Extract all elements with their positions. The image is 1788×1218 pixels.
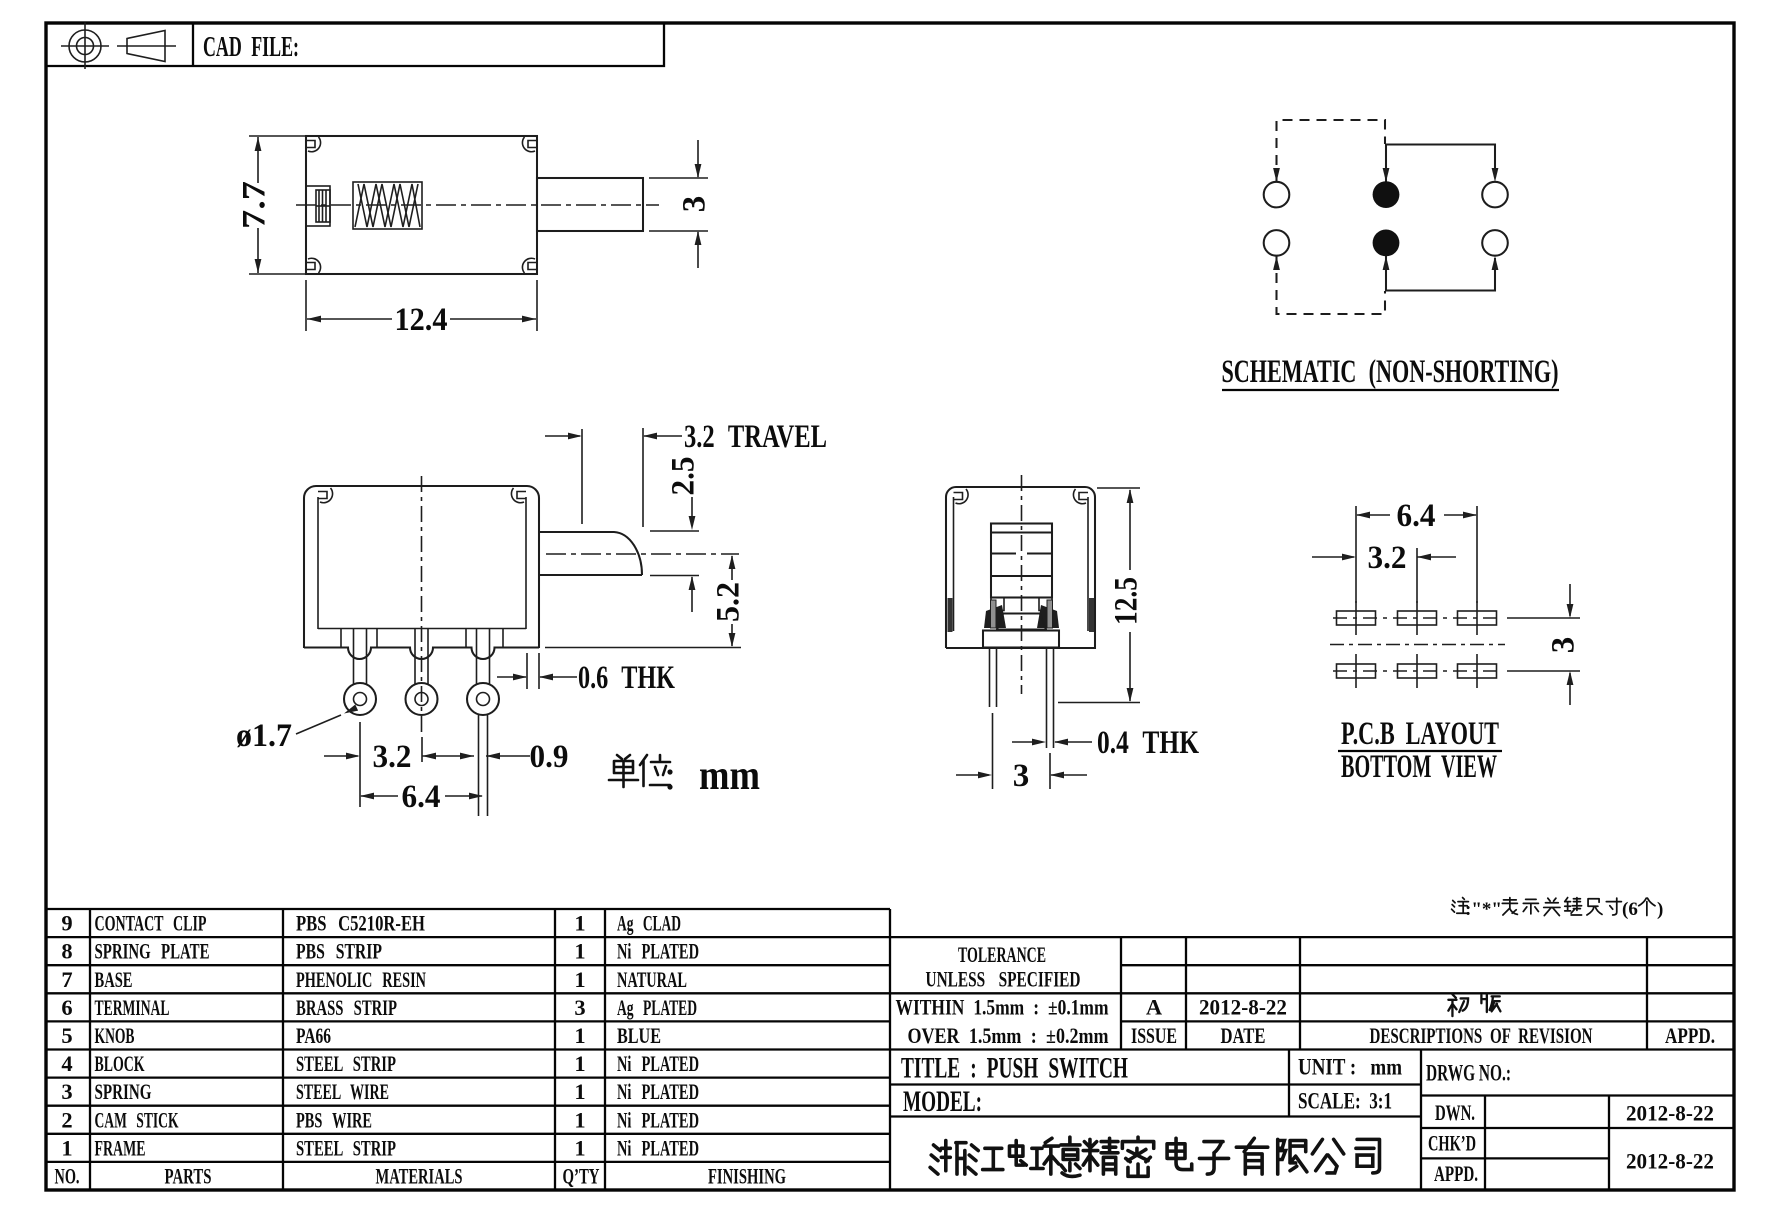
first-angle projection target symbol xyxy=(61,23,109,70)
label dia 1.7 xyxy=(236,705,358,754)
svg-text:3.2: 3.2 xyxy=(1368,540,1407,576)
svg-text:1: 1 xyxy=(574,1107,585,1132)
contact circle filled bottom-middle xyxy=(1373,230,1400,257)
svg-text:SPRING: SPRING xyxy=(95,1079,152,1104)
dim 3.2 TRAVEL xyxy=(545,419,827,527)
svg-text:FINISHING: FINISHING xyxy=(708,1164,786,1189)
svg-text:TERMINAL: TERMINAL xyxy=(95,995,170,1020)
svg-text:7: 7 xyxy=(61,967,72,992)
svg-text:PBS WIRE: PBS WIRE xyxy=(296,1107,372,1132)
plunger side xyxy=(539,532,642,575)
char cun xyxy=(1606,898,1621,915)
svg-text:Ni PLATED: Ni PLATED xyxy=(617,939,699,964)
body outline xyxy=(304,486,539,648)
svg-text:A: A xyxy=(1146,995,1163,1020)
svg-text:KNOB: KNOB xyxy=(95,1023,135,1048)
char 电 xyxy=(1167,1138,1192,1169)
svg-text:P.C.B LAYOUT: P.C.B LAYOUT xyxy=(1341,716,1499,752)
svg-text:2012-8-22: 2012-8-22 xyxy=(1626,1149,1714,1174)
dim 3.2 xyxy=(1312,540,1456,603)
company name (drawn strokes) 浙江虹穗精密电子有限公司 xyxy=(930,1137,1379,1176)
svg-text:ISSUE: ISSUE xyxy=(1131,1023,1177,1048)
dim 5.2 xyxy=(545,555,747,648)
char jian xyxy=(1565,898,1582,915)
terminal lug 1 xyxy=(344,683,376,715)
svg-text:0.9: 0.9 xyxy=(530,739,569,775)
svg-text:6.4: 6.4 xyxy=(402,779,441,815)
svg-text:SPRING PLATE: SPRING PLATE xyxy=(95,939,210,964)
svg-text:12.4: 12.4 xyxy=(395,302,448,338)
dim 0.9 xyxy=(486,739,569,775)
arrows into contacts xyxy=(1273,168,1280,182)
char 精 xyxy=(1083,1138,1118,1174)
contact U channel xyxy=(997,614,1046,630)
contact circle filled top-middle xyxy=(1373,181,1400,208)
svg-text:Q’TY: Q’TY xyxy=(563,1164,600,1189)
svg-text:7.7: 7.7 xyxy=(237,181,273,229)
pad top-middle xyxy=(1398,611,1437,625)
knob xyxy=(991,524,1052,598)
svg-text:2: 2 xyxy=(61,1107,72,1132)
svg-text:SCALE: 3:1: SCALE: 3:1 xyxy=(1298,1089,1392,1114)
svg-text:TOLERANCE: TOLERANCE xyxy=(958,942,1046,967)
dimension 12.4 xyxy=(306,280,537,338)
dim 3.2 (terminal pitch) xyxy=(324,722,474,807)
char 子 xyxy=(1199,1142,1228,1174)
svg-text:WITHIN 1.5mm : ±0.1mm: WITHIN 1.5mm : ±0.1mm xyxy=(896,995,1109,1020)
pad top-right xyxy=(1458,611,1497,625)
char guan xyxy=(1544,898,1560,915)
units note 单位: mm xyxy=(609,753,760,799)
terminal strips through clips xyxy=(991,600,997,628)
cam stick xyxy=(306,186,330,226)
svg-text:0.6 THK: 0.6 THK xyxy=(578,660,675,696)
svg-text:FRAME: FRAME xyxy=(95,1135,146,1160)
base shelf line xyxy=(318,628,526,630)
char 密 xyxy=(1122,1137,1153,1176)
pad top-left xyxy=(1337,611,1376,625)
char 江 xyxy=(968,1145,1003,1174)
contact circle open top-left xyxy=(1264,182,1290,208)
svg-text:0.4 THK: 0.4 THK xyxy=(1097,725,1199,761)
center line xyxy=(296,204,659,206)
base block xyxy=(983,631,1059,648)
dim 0.6 THK xyxy=(497,653,675,696)
svg-text:DRWG NO.:: DRWG NO.: xyxy=(1426,1061,1511,1086)
corner tab right xyxy=(511,488,526,503)
char 单 xyxy=(609,755,638,787)
contact clips dark xyxy=(984,605,1006,628)
dim 3 xyxy=(1507,584,1582,705)
dim 12.5 xyxy=(1058,488,1145,703)
svg-text:1: 1 xyxy=(574,1079,585,1104)
dashed frame xyxy=(1277,120,1386,182)
contact circle open bottom-left xyxy=(1264,230,1290,256)
char 限 xyxy=(1278,1139,1307,1174)
svg-text:1: 1 xyxy=(574,1051,585,1076)
svg-text:UNIT : mm: UNIT : mm xyxy=(1298,1055,1402,1080)
center line xyxy=(1021,475,1023,694)
plunger / knob shaft xyxy=(537,178,643,231)
char 浙 xyxy=(930,1140,966,1174)
svg-text:DATE: DATE xyxy=(1221,1023,1266,1048)
svg-text:PHENOLIC RESIN: PHENOLIC RESIN xyxy=(296,967,426,992)
svg-text:Ni PLATED: Ni PLATED xyxy=(617,1107,699,1132)
dim 3 (pin pitch) xyxy=(956,713,1087,794)
svg-text:9: 9 xyxy=(61,911,72,936)
svg-text:PARTS: PARTS xyxy=(165,1164,212,1189)
svg-text:NATURAL: NATURAL xyxy=(617,967,687,992)
contact circle open bottom-right xyxy=(1482,230,1508,256)
spring plate ears xyxy=(991,598,1052,611)
svg-text:BASE: BASE xyxy=(95,967,133,992)
tolerance block text xyxy=(896,942,1716,1048)
body outline xyxy=(946,487,1095,648)
svg-text:STEEL WIRE: STEEL WIRE xyxy=(296,1079,389,1104)
svg-text:MATERIALS: MATERIALS xyxy=(376,1164,463,1189)
svg-text:MODEL:: MODEL: xyxy=(903,1085,982,1118)
svg-text:1: 1 xyxy=(574,939,585,964)
pad bottom-middle xyxy=(1398,664,1437,678)
svg-text:Ni PLATED: Ni PLATED xyxy=(617,1135,699,1160)
svg-text:PBS STRIP: PBS STRIP xyxy=(296,939,382,964)
svg-text:): ) xyxy=(1657,899,1663,920)
divider xyxy=(192,23,194,66)
contact circle open top-right xyxy=(1482,182,1508,208)
svg-text:APPD.: APPD. xyxy=(1665,1023,1715,1048)
char shi xyxy=(1523,899,1538,914)
svg-text:BLOCK: BLOCK xyxy=(95,1051,145,1076)
corner tab top-right xyxy=(522,137,537,152)
shelf stubs xyxy=(340,629,342,648)
svg-text:TITLE : PUSH SWITCH: TITLE : PUSH SWITCH xyxy=(901,1052,1128,1085)
char chi xyxy=(1587,899,1602,915)
svg-text:3: 3 xyxy=(574,995,585,1020)
svg-text:3.2 TRAVEL: 3.2 TRAVEL xyxy=(684,419,827,455)
dimension 3 (plunger width) xyxy=(649,140,713,268)
wire of terminal 3 xyxy=(478,715,480,817)
svg-text:6.4: 6.4 xyxy=(1397,498,1436,534)
svg-text:ø1.7: ø1.7 xyxy=(236,718,292,754)
char 司 xyxy=(1356,1139,1380,1173)
char 公 xyxy=(1312,1139,1343,1173)
svg-text:CAM STICK: CAM STICK xyxy=(95,1107,179,1132)
parts list rows xyxy=(55,911,787,1189)
title / model xyxy=(901,1052,1511,1119)
char 位 xyxy=(640,755,670,786)
CAD FILE header box xyxy=(46,23,664,66)
svg-text:STEEL STRIP: STEEL STRIP xyxy=(296,1051,396,1076)
dim 0.4 THK xyxy=(1012,725,1199,761)
solid wiring xyxy=(1386,145,1495,183)
corner tab left xyxy=(318,488,333,503)
char 虹 xyxy=(1009,1140,1043,1168)
char ge xyxy=(1639,898,1655,915)
svg-text:6: 6 xyxy=(61,995,72,1020)
inner walls xyxy=(953,497,955,631)
pad bottom-left xyxy=(1337,664,1376,678)
top view body frame xyxy=(306,136,537,274)
corner tab bottom-left xyxy=(306,258,321,273)
dimension 7.7 xyxy=(237,136,308,274)
svg-text:SCHEMATIC (NON-SHORTING): SCHEMATIC (NON-SHORTING) xyxy=(1222,354,1559,390)
svg-text:PBS C5210R-EH: PBS C5210R-EH xyxy=(296,911,425,936)
svg-text:Ag PLATED: Ag PLATED xyxy=(617,995,697,1020)
dim 6.4 xyxy=(360,779,483,815)
char biao xyxy=(1502,898,1517,915)
svg-text:NO.: NO. xyxy=(55,1164,80,1189)
corner tab bottom-right xyxy=(522,258,537,273)
svg-text:CHK’D: CHK’D xyxy=(1428,1131,1476,1156)
bottom edge with terminal notches xyxy=(304,648,539,660)
horizontal center line of plunger xyxy=(546,553,739,555)
svg-text:OVER 1.5mm : ±0.2mm: OVER 1.5mm : ±0.2mm xyxy=(908,1023,1109,1048)
svg-text:DWN.: DWN. xyxy=(1435,1100,1475,1125)
char zhu xyxy=(1452,898,1469,914)
dim 6.4 xyxy=(1356,498,1477,603)
terminal lug 3 xyxy=(467,683,499,715)
svg-text:BRASS STRIP: BRASS STRIP xyxy=(296,995,397,1020)
pins xyxy=(990,648,1054,748)
dim 2.5 xyxy=(650,457,702,613)
svg-text:4: 4 xyxy=(61,1051,72,1076)
char 穗 xyxy=(1044,1137,1080,1176)
svg-text:12.5: 12.5 xyxy=(1109,577,1145,625)
svg-text:3: 3 xyxy=(677,196,713,213)
svg-text:CONTACT CLIP: CONTACT CLIP xyxy=(95,911,207,936)
svg-text:3.2: 3.2 xyxy=(373,739,412,775)
svg-text:BLUE: BLUE xyxy=(617,1023,661,1048)
inner walls xyxy=(317,497,319,629)
pad bottom-right xyxy=(1458,664,1497,678)
svg-text:UNLESS SPECIFIED: UNLESS SPECIFIED xyxy=(926,967,1081,992)
svg-text:APPD.: APPD. xyxy=(1434,1161,1478,1186)
corner tab top-left xyxy=(306,137,321,152)
svg-text:1: 1 xyxy=(574,911,585,936)
svg-text:2012-8-22: 2012-8-22 xyxy=(1199,995,1287,1020)
svg-text:DESCRIPTIONS OF REVISION: DESCRIPTIONS OF REVISION xyxy=(1370,1023,1593,1048)
svg-text:Ag CLAD: Ag CLAD xyxy=(617,911,681,936)
svg-text:Ni PLATED: Ni PLATED xyxy=(617,1051,699,1076)
svg-text:3: 3 xyxy=(61,1079,72,1104)
svg-text:1: 1 xyxy=(574,967,585,992)
svg-text::"*": :"*" xyxy=(1465,899,1502,920)
terminal 3 neck xyxy=(477,629,490,685)
terminal lug 2 xyxy=(406,683,438,715)
svg-text:CAD FILE:: CAD FILE: xyxy=(203,31,299,63)
svg-text:5: 5 xyxy=(61,1023,72,1048)
svg-text:STEEL STRIP: STEEL STRIP xyxy=(296,1135,396,1160)
vertical center line xyxy=(421,476,423,733)
svg-text:3: 3 xyxy=(1013,758,1030,794)
svg-text:mm: mm xyxy=(699,753,760,799)
terminal 1 neck xyxy=(354,629,367,685)
pad crosshairs xyxy=(1330,601,1505,688)
svg-text:Ni PLATED: Ni PLATED xyxy=(617,1079,699,1104)
svg-text:1: 1 xyxy=(574,1135,585,1160)
wall shading xyxy=(948,598,953,632)
terminal 2 neck xyxy=(415,629,428,685)
key-dimension note 注:"*"表示关键尺寸(6个) xyxy=(1452,898,1664,920)
svg-text:3: 3 xyxy=(1546,637,1582,654)
svg-text:8: 8 xyxy=(61,939,72,964)
svg-text:(6: (6 xyxy=(1622,899,1638,920)
svg-text:1: 1 xyxy=(574,1023,585,1048)
projection cone symbol xyxy=(117,31,176,62)
spring xyxy=(353,182,422,229)
svg-text:1: 1 xyxy=(61,1135,72,1160)
svg-text:2.5: 2.5 xyxy=(666,457,702,496)
colon xyxy=(667,769,672,774)
svg-text:PA66: PA66 xyxy=(296,1023,331,1048)
corner tabs xyxy=(954,489,969,504)
sign-off labels xyxy=(1428,1100,1714,1186)
svg-text:BOTTOM VIEW: BOTTOM VIEW xyxy=(1341,749,1497,785)
revision 初版 xyxy=(1448,994,1500,1016)
char 有 xyxy=(1236,1138,1267,1174)
svg-text:2012-8-22: 2012-8-22 xyxy=(1626,1101,1714,1126)
svg-text:5.2: 5.2 xyxy=(711,582,747,622)
